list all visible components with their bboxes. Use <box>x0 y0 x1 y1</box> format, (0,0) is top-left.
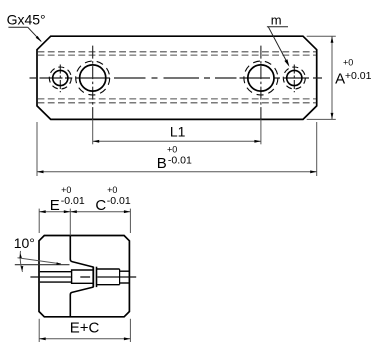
svg-text:+0: +0 <box>167 144 177 154</box>
svg-text:L1: L1 <box>170 124 186 140</box>
svg-text:B: B <box>157 155 167 172</box>
svg-text:-0.01: -0.01 <box>61 195 85 207</box>
svg-text:A: A <box>335 71 345 88</box>
svg-text:m: m <box>271 12 282 27</box>
svg-text:+0.01: +0.01 <box>345 70 372 82</box>
svg-text:+0: +0 <box>61 185 71 195</box>
svg-text:-0.01: -0.01 <box>107 195 131 207</box>
svg-text:10°: 10° <box>14 235 35 251</box>
svg-text:+0: +0 <box>107 185 117 195</box>
svg-text:-0.01: -0.01 <box>168 155 192 167</box>
svg-text:+0: +0 <box>343 57 353 67</box>
svg-text:E: E <box>50 197 60 214</box>
svg-text:E+C: E+C <box>70 320 100 337</box>
svg-text:C: C <box>95 197 106 214</box>
svg-text:Gx45°: Gx45° <box>7 12 46 28</box>
